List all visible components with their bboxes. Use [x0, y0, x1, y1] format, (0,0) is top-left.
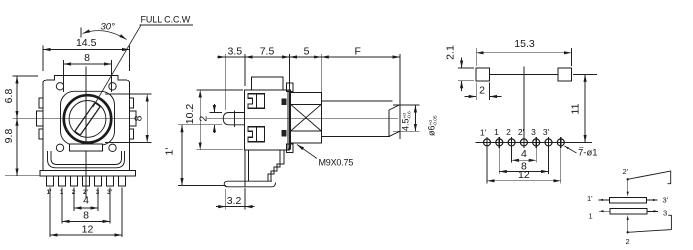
cover cup inner	[51, 151, 122, 165]
dimension 2 pin	[178, 104, 222, 133]
side body	[245, 90, 290, 150]
front pins side view	[244, 150, 246, 187]
M9X0.75 label	[297, 145, 353, 168]
svg-text:2': 2'	[623, 167, 629, 176]
joint block lower	[282, 130, 287, 137]
pin 3	[94, 176, 101, 186]
svg-text:8: 8	[84, 52, 90, 64]
bushing thread band lines	[291, 103, 322, 105]
joint block upper	[282, 98, 287, 105]
dimension 8 top	[64, 52, 112, 92]
svg-text:11: 11	[570, 103, 582, 114]
left foot	[476, 68, 489, 81]
dimension 8 bottom front	[62, 188, 110, 224]
svg-text:3': 3'	[663, 196, 669, 205]
pot body outline front	[43, 76, 130, 171]
svg-text:4: 4	[521, 148, 527, 160]
bushing outline	[291, 93, 322, 144]
wiper 2 arrow	[627, 215, 629, 232]
terminal 3'	[647, 199, 658, 201]
corner rivet top-left	[56, 83, 63, 90]
mounting plate line	[490, 73, 559, 75]
dimension F top	[321, 46, 400, 140]
cover cup outer	[48, 151, 125, 168]
centerline vertical front view	[85, 67, 87, 199]
svg-text:1: 1	[589, 212, 593, 221]
dimension 7.5 top	[245, 46, 289, 91]
shaft top line	[321, 100, 392, 102]
dimension 3.5 top	[217, 46, 245, 111]
svg-text:9.8: 9.8	[3, 129, 15, 144]
hole 3'	[545, 137, 552, 148]
left side tab upper	[39, 98, 43, 108]
svg-text:8: 8	[133, 115, 145, 121]
terminal clip upper	[248, 94, 265, 109]
dimension 4 holes	[512, 147, 537, 163]
dimension 8 holes	[499, 147, 548, 174]
hole labels	[480, 127, 550, 137]
pcb pin side	[223, 113, 244, 125]
bracket staircase inner	[268, 150, 280, 181]
hole 1'	[484, 137, 491, 148]
view connecting centerline	[523, 83, 525, 139]
svg-text:2: 2	[626, 237, 630, 246]
svg-text:12: 12	[518, 169, 530, 181]
shaft bottom line	[321, 135, 390, 137]
dimension 5 top	[290, 46, 322, 93]
terminal 1'	[599, 199, 610, 201]
right side tab lower	[130, 129, 134, 139]
svg-text:3': 3'	[543, 127, 550, 137]
pin 1	[58, 176, 65, 186]
dimension 3.2	[216, 188, 255, 210]
bushing thread X	[291, 104, 322, 131]
svg-text:7-ø1: 7-ø1	[578, 148, 598, 159]
centerline horizontal front view	[28, 117, 137, 119]
svg-text:2: 2	[506, 127, 511, 137]
svg-text:M9X0.75: M9X0.75	[319, 158, 354, 168]
dimension 2 foot	[465, 83, 502, 101]
dimension 2.1	[445, 45, 475, 91]
cover tab over bushing bottom	[287, 144, 294, 152]
svg-text:3.2: 3.2	[227, 195, 242, 207]
svg-text:1': 1'	[164, 148, 176, 156]
30 degree indicator	[81, 22, 127, 40]
svg-text:6.8: 6.8	[3, 89, 15, 104]
hole 2	[508, 137, 515, 148]
right foot	[558, 68, 571, 81]
svg-text:5: 5	[304, 46, 310, 58]
svg-text:1: 1	[494, 127, 499, 137]
shaft flat edge	[388, 110, 390, 136]
svg-text:3: 3	[531, 127, 536, 137]
bent foot bar	[224, 181, 272, 187]
corner rivet top-right	[109, 83, 116, 90]
svg-text:2': 2'	[518, 127, 525, 137]
resistor element upper	[610, 197, 647, 203]
gang link upper	[628, 171, 671, 184]
dimension 15.3	[476, 38, 571, 66]
shaft slot	[75, 103, 100, 135]
SCHEMATIC	[599, 171, 672, 234]
rotor outer ring	[64, 95, 111, 142]
pin 1'	[46, 176, 53, 186]
pin labels row	[47, 190, 113, 196]
resistor element lower	[610, 209, 647, 215]
terminal 1	[599, 210, 610, 212]
svg-text:3: 3	[663, 209, 667, 218]
dimension 9.8 left	[3, 118, 40, 176]
svg-text:2: 2	[479, 85, 485, 97]
FULL C.C.W label	[93, 15, 193, 108]
svg-text:1': 1'	[480, 127, 487, 137]
pin 3'	[106, 176, 113, 186]
dimension 4 bottom front	[74, 188, 98, 212]
svg-text:4: 4	[83, 195, 89, 207]
dimension 14.5	[43, 37, 130, 71]
svg-text:FULL C.C.W: FULL C.C.W	[141, 15, 191, 25]
dimension 11	[570, 74, 598, 142]
hole case lug	[557, 137, 564, 148]
svg-text:15.3: 15.3	[514, 38, 535, 50]
right side tab middle	[130, 111, 137, 126]
gang link lower	[628, 215, 672, 232]
pin 2'	[82, 176, 89, 186]
dimension 12 holes	[487, 147, 561, 184]
hole 1	[496, 137, 503, 148]
svg-text:7.5: 7.5	[260, 46, 275, 58]
svg-text:30°: 30°	[101, 22, 116, 33]
shaft circle	[69, 101, 106, 138]
dimension 8 right rotor dia	[105, 94, 152, 142]
svg-text:F: F	[354, 46, 360, 58]
foot bend line	[272, 183, 276, 187]
dimension 1' left	[164, 125, 227, 186]
svg-text:1': 1'	[587, 194, 593, 203]
svg-text:1': 1'	[47, 190, 52, 196]
svg-text:14.5: 14.5	[76, 37, 97, 49]
dimension 12 bottom front	[50, 188, 122, 238]
bushing washer	[288, 90, 291, 149]
tab below rotor	[70, 144, 103, 151]
center tick	[523, 67, 525, 83]
pin 2	[70, 176, 77, 186]
terminal 3	[647, 210, 658, 212]
dimension 10.2	[184, 90, 243, 150]
svg-text:2: 2	[198, 116, 210, 122]
shaft flat chamfer top	[389, 105, 400, 110]
cover tab over bushing top	[287, 83, 294, 91]
terminal clip lower	[248, 127, 265, 142]
centerline horizontal side view	[207, 118, 398, 120]
pin 7th case lug	[118, 176, 125, 186]
corner rivet bottom-right	[109, 144, 116, 151]
hole 3	[533, 137, 540, 148]
wiper 2' arrow	[627, 179, 629, 196]
left side tab lower	[39, 129, 43, 139]
base flange	[40, 171, 136, 176]
corner rivet bottom-left	[56, 144, 63, 151]
hole 2'	[520, 137, 527, 148]
svg-text:8: 8	[83, 210, 89, 222]
svg-text:3.5: 3.5	[227, 46, 242, 58]
shaft flat chamfer bottom	[389, 131, 400, 136]
dimension 4.5 shaft flat	[393, 105, 420, 131]
svg-text:12: 12	[82, 223, 94, 235]
hole row line	[476, 141, 593, 143]
dimension 6.8 left	[3, 76, 38, 118]
svg-text:2.1: 2.1	[445, 45, 457, 60]
bracket staircase outer	[271, 150, 284, 181]
svg-text:10.2: 10.2	[184, 104, 196, 125]
left side tab middle	[37, 111, 44, 126]
7-phi1 callout	[565, 146, 598, 159]
cover squircle	[61, 91, 115, 145]
right side tab upper	[130, 98, 134, 108]
side body top tab	[252, 77, 283, 90]
